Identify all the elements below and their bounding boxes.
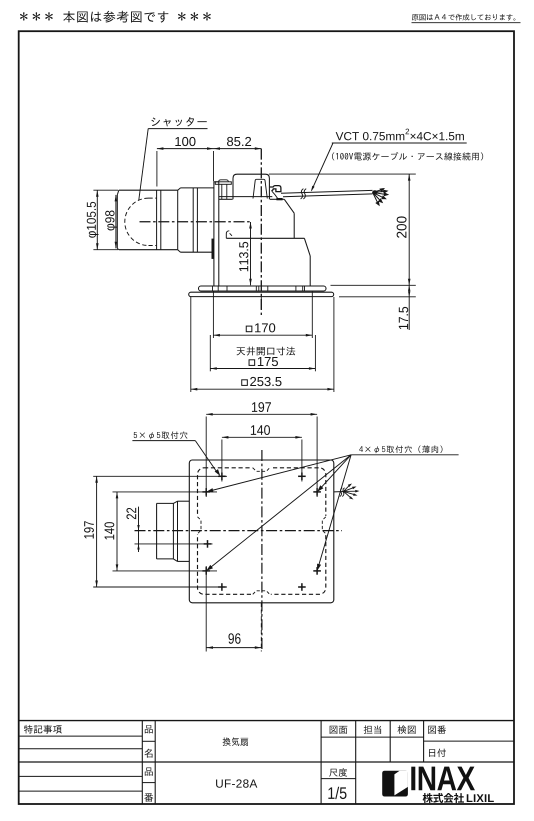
shutter label underline	[148, 128, 207, 130]
left extension lines bottom view	[93, 475, 227, 477]
extension lines below grille	[212, 292, 214, 339]
title block verticals	[141, 721, 143, 804]
leader 5x5 to hole h1	[195, 441, 217, 473]
header underline	[412, 22, 521, 24]
duct stub on left	[156, 503, 158, 559]
text 1/5	[328, 787, 334, 799]
shutter dashed arc	[125, 198, 149, 245]
kabushikigaisha LIXIL	[423, 793, 433, 803]
dashed notches at edge midpoints	[253, 468, 270, 472]
header note right: genzu wa A4	[412, 14, 419, 20]
cable bend into body	[272, 191, 278, 198]
dimension 197 left	[96, 476, 98, 587]
extension lines for 100/85.2	[156, 151, 158, 187]
text zumen tantou kenzu	[330, 726, 338, 734]
dimension box170	[213, 334, 312, 336]
shakudo divider	[321, 778, 356, 780]
label 5x5 underline	[132, 440, 195, 442]
fan body left wall	[213, 182, 215, 286]
terminal block on top left	[215, 182, 231, 185]
bottom view horizontal centerline	[135, 530, 343, 532]
leader line shutter	[139, 129, 148, 200]
tokki jikou rows	[19, 735, 143, 737]
dimension 17.5	[339, 296, 416, 298]
label 100V cable note	[332, 152, 334, 160]
text kankisen	[223, 737, 231, 746]
frayed wire strands	[373, 190, 382, 193]
dimension dia105.5	[96, 190, 98, 250]
INAX logotype	[411, 767, 415, 791]
leader line VCT to cable	[312, 143, 334, 191]
text zuban hizuke	[428, 726, 436, 734]
mounting flange bar	[199, 286, 327, 291]
motor housing rounded box	[233, 174, 269, 199]
fan body right profile lower	[304, 238, 310, 256]
dimension 22	[138, 507, 140, 552]
cable stub in bottom view	[334, 491, 345, 493]
header note: kono zu wa sankouzu desu	[20, 12, 27, 20]
horizontal centerline of duct	[140, 221, 252, 223]
cable stub break symbol	[340, 488, 342, 497]
label 4x5 underline	[351, 454, 459, 456]
black damper bar on left wall	[212, 239, 214, 259]
dimension dia98	[115, 195, 117, 248]
dimension box253.5	[191, 388, 334, 390]
dimension 200	[269, 173, 416, 175]
bottom view dashed body outline	[198, 468, 326, 595]
text UF-28A	[216, 779, 223, 787]
power cable	[281, 190, 373, 193]
dimension 96	[207, 647, 262, 649]
bottom view outer square (grille)	[189, 460, 333, 603]
dimension box175	[210, 368, 315, 370]
label shutter	[151, 117, 160, 126]
vertical centerline of unit	[260, 149, 262, 315]
fan body top edge	[219, 198, 233, 200]
text shakudo	[329, 769, 337, 777]
mounting holes crosses	[218, 475, 226, 477]
flange ticks	[212, 286, 214, 291]
label 4x5 mounting holes thin wall	[359, 446, 363, 452]
cable entry grommet	[276, 198, 282, 200]
title block top line	[19, 720, 514, 722]
label VCT cable	[336, 132, 344, 140]
text hin/mei column	[145, 725, 153, 733]
dimension 100 / 85.2 line	[157, 148, 261, 150]
zuban hizuke divider	[424, 740, 514, 742]
cable clamp bracket	[270, 186, 281, 192]
dim text 100	[175, 137, 181, 146]
zumen header divider	[321, 736, 424, 738]
dimension arrows 100/85.2	[157, 147, 164, 150]
duct pipe outline	[116, 195, 118, 248]
dimension 197 top	[206, 413, 317, 415]
title block mid line	[19, 761, 514, 763]
dimension 113.5	[250, 222, 252, 285]
ledge left hook	[226, 231, 229, 239]
fan body lower ledge	[226, 237, 304, 239]
label tenjou kaikou sunpou	[237, 347, 246, 355]
label VCT underline	[332, 142, 467, 144]
ceiling grille plate	[189, 292, 334, 296]
bottom view vertical centerline	[261, 450, 263, 652]
text tokkijikou	[24, 725, 33, 734]
dimension 140 top	[222, 436, 302, 438]
fan body right profile upper	[284, 199, 294, 213]
cable break symbol	[301, 189, 304, 199]
hinmei hinban label dividers	[142, 740, 155, 742]
INAX logomark	[382, 771, 408, 797]
leaders 4x5 to holes	[212, 455, 351, 491]
housing base sill	[219, 196, 272, 198]
white gaps for notches	[253, 466, 271, 469]
label 5x5 mounting holes	[134, 432, 137, 438]
plug wedge inside housing	[253, 179, 267, 198]
hole extension lines vertical	[205, 417, 207, 498]
dim text 85.2	[227, 137, 233, 146]
dimension 140 left	[116, 492, 118, 571]
